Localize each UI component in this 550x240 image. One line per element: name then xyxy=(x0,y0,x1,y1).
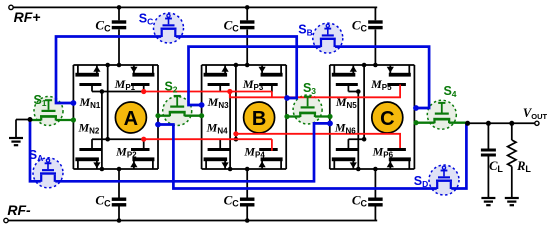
svg-text:MP4: MP4 xyxy=(243,145,265,160)
svg-text:MP1: MP1 xyxy=(114,77,136,92)
svg-text:RF-: RF- xyxy=(7,202,31,218)
svg-text:CC: CC xyxy=(95,193,111,209)
svg-text:MP6: MP6 xyxy=(372,145,394,160)
svg-text:CC: CC xyxy=(224,193,240,209)
svg-text:S2: S2 xyxy=(164,80,177,95)
svg-text:RL: RL xyxy=(516,159,531,174)
svg-text:MN4: MN4 xyxy=(206,121,228,136)
svg-text:B: B xyxy=(252,108,266,130)
svg-text:SC: SC xyxy=(139,12,153,27)
svg-text:MP2: MP2 xyxy=(115,145,137,160)
svg-text:C: C xyxy=(380,108,394,130)
svg-text:CC: CC xyxy=(352,193,368,209)
svg-text:MN1: MN1 xyxy=(78,95,100,110)
svg-text:SB: SB xyxy=(298,23,312,38)
svg-text:MP5: MP5 xyxy=(370,77,392,92)
svg-text:CC: CC xyxy=(224,18,240,34)
svg-text:MP3: MP3 xyxy=(242,77,264,92)
svg-text:MN3: MN3 xyxy=(207,95,229,110)
svg-text:SA: SA xyxy=(29,148,43,163)
svg-text:CL: CL xyxy=(489,159,503,174)
svg-text:SD: SD xyxy=(414,174,428,189)
svg-text:S4: S4 xyxy=(443,84,456,99)
svg-text:S3: S3 xyxy=(303,81,316,96)
svg-text:RF+: RF+ xyxy=(14,9,41,25)
svg-text:S1: S1 xyxy=(33,93,46,108)
svg-text:A: A xyxy=(124,108,138,130)
svg-text:CC: CC xyxy=(352,18,368,34)
svg-text:VOUT: VOUT xyxy=(523,106,548,121)
svg-text:CC: CC xyxy=(95,18,111,34)
svg-text:MN6: MN6 xyxy=(334,121,356,136)
svg-text:MN2: MN2 xyxy=(77,121,99,136)
